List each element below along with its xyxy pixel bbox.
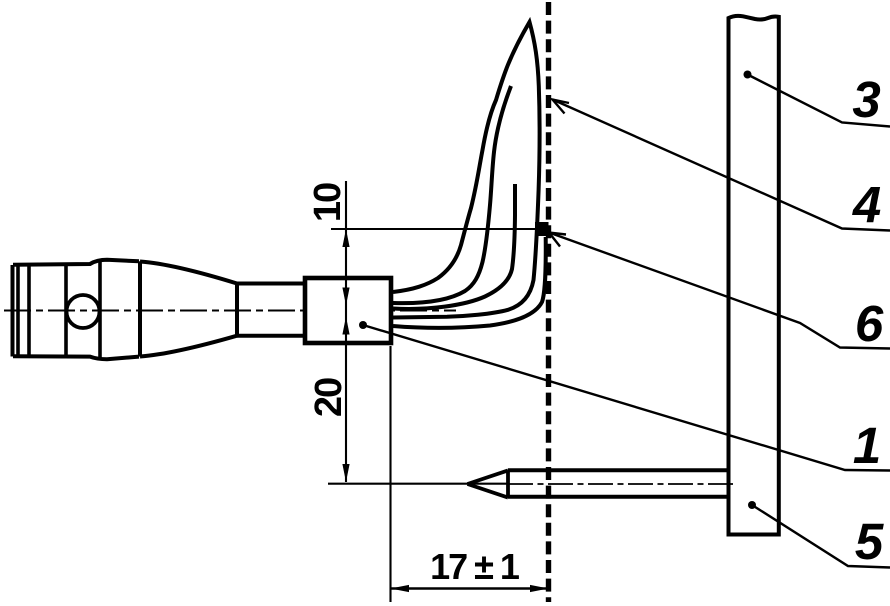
arrowheads dim 20 xyxy=(342,317,349,335)
dimension vertical line (10/20) xyxy=(345,181,347,482)
burner neck xyxy=(237,284,306,336)
svg-text:17 ± 1: 17 ± 1 xyxy=(430,546,520,587)
pencil shaft xyxy=(508,470,729,497)
leader line 1 xyxy=(363,325,890,471)
flame lower line to measuring point xyxy=(393,237,546,328)
flame inner line 2 xyxy=(393,86,511,303)
bottom dimension line 17±1 xyxy=(391,587,549,589)
leader dot on board (label 5) xyxy=(748,501,756,509)
svg-text:1: 1 xyxy=(853,417,881,474)
leader line 4 with arrow at dashed line xyxy=(553,100,890,231)
svg-text:5: 5 xyxy=(855,513,884,570)
leader dot on board (label 3) xyxy=(744,71,752,79)
measuring point square (node 6) xyxy=(535,222,549,236)
svg-text:10: 10 xyxy=(307,183,349,222)
reference line at pencil level xyxy=(328,483,508,485)
extension line from nozzle edge down xyxy=(389,346,391,602)
burner body outline xyxy=(13,260,238,359)
leader line 6 with arrow at square xyxy=(549,233,890,349)
dashed flame-front plane line xyxy=(546,2,551,602)
arrowheads dim 17 xyxy=(391,585,410,592)
svg-text:4: 4 xyxy=(852,176,881,233)
leader line 5 xyxy=(752,505,890,568)
flame inner line 3 xyxy=(393,184,515,309)
burner centerline xyxy=(4,309,456,311)
svg-text:3: 3 xyxy=(852,71,880,128)
pencil centerline xyxy=(508,483,737,485)
vertical board xyxy=(729,16,779,535)
svg-text:6: 6 xyxy=(855,295,884,352)
reference line at 10 above axis xyxy=(331,228,536,230)
svg-text:20: 20 xyxy=(308,378,350,417)
flame outer envelope xyxy=(393,22,540,318)
leader line 3 xyxy=(748,75,890,127)
burner inner vertical lines xyxy=(18,261,100,359)
nozzle box xyxy=(305,278,391,343)
pencil cone xyxy=(468,470,509,497)
burner circle detail xyxy=(67,295,100,328)
arrowheads dim 10 xyxy=(342,229,349,247)
leader dot in nozzle (label 1) xyxy=(359,321,367,329)
